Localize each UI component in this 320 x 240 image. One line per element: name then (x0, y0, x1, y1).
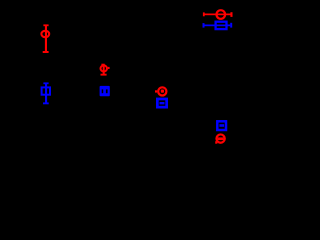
H cap right of N4 (230, 23, 232, 28)
bond nub lower-left of O5 (215, 141, 217, 144)
oxide O5 (ring with minus bar, lower-left nub) (215, 134, 225, 143)
amine N4 (horizontal H-cap / bond / N box / bond / H-cap) (203, 22, 233, 29)
slot right in N2 (106, 89, 108, 93)
nitro nitrogen N3 (box with minus bar) (157, 99, 166, 107)
atom N5 box (217, 121, 226, 130)
atom N3 box (157, 99, 166, 107)
bond through N4 (205, 25, 231, 27)
bond through N1 (45, 84, 47, 103)
nitro oxygen O3 (ring with center dot, left bond nub) (155, 87, 166, 95)
slot left in N2 (102, 89, 104, 93)
stub above O2 (101, 64, 104, 66)
atom O5 ring (216, 134, 224, 142)
atom N2 box (100, 86, 110, 96)
amine group N1 (vertical H-cap / bond / N box / bond / H-cap) (42, 82, 50, 104)
minus bar inside O5 (218, 137, 224, 140)
carbonyl O2 (ring with stub up, bond down to H-cap, right nub) (101, 64, 110, 76)
amide N2 (bold box glyph with two dark slots) (100, 86, 110, 96)
charge dot inside O3 (161, 90, 164, 93)
H cap left of N4 (203, 23, 205, 28)
atom O1 ring (41, 31, 49, 37)
H cap left of O4 (203, 12, 205, 16)
water oxygen O4 (horizontal H-cap / bond / O ring / bond / H-cap) (203, 10, 233, 19)
minus bar inside N3 (160, 102, 165, 104)
H cap right of O4 (230, 12, 232, 17)
atom O2 ring (101, 65, 108, 71)
atom O3 ring (158, 87, 166, 95)
hydroxyl group O1 (vertical H-cap / bond / O ring / bond / H-cap) (41, 24, 49, 53)
H cap above N1 (43, 82, 48, 84)
atom N1 box (42, 87, 50, 94)
H cap below O1 (43, 51, 49, 53)
ammonium N5 (box with minus bar) (217, 121, 226, 130)
bond through O4 (205, 14, 231, 16)
atom O4 ring (217, 10, 226, 19)
bond stub right of O2 (108, 67, 110, 69)
H cap above O1 (43, 24, 48, 26)
H cap below O2 (101, 74, 107, 76)
minus bar inside N5 (219, 124, 224, 127)
bond through O2 (103, 65, 105, 75)
bond nub left of O3 (155, 90, 157, 92)
atom N4 box (216, 22, 227, 29)
H cap below N1 (43, 102, 49, 104)
bond through O1 (45, 26, 47, 52)
